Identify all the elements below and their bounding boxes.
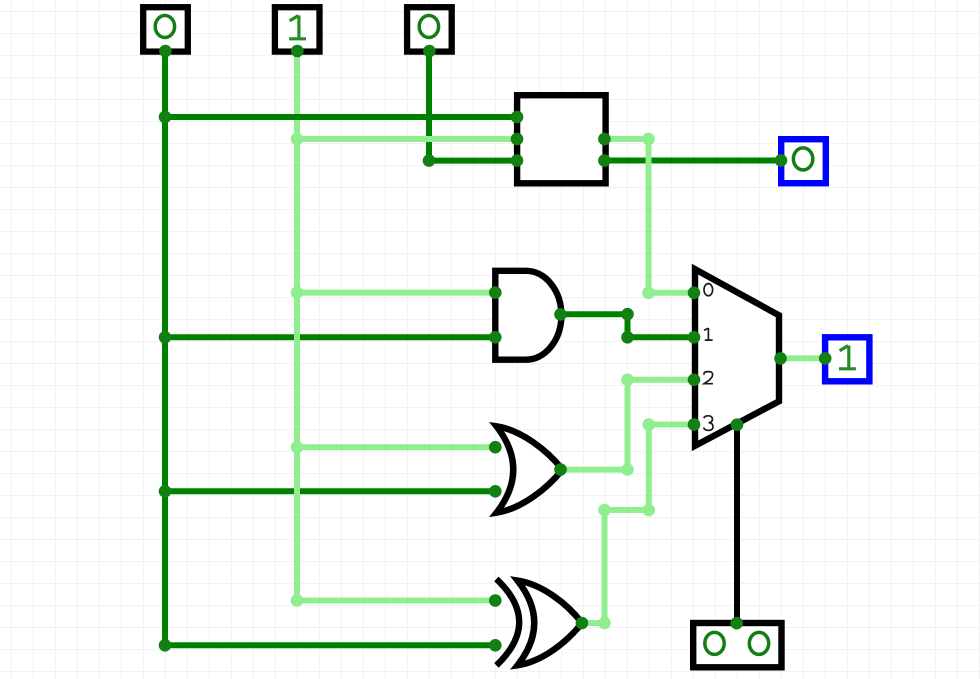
junction AND-out corner top [621, 308, 634, 321]
pin XOR out [576, 617, 589, 630]
wire U1 out2 to LED Y1 [604, 158, 781, 164]
junction XOR-net corner 3 [643, 504, 656, 517]
junction XOR-net corner 2 [598, 504, 611, 517]
pin XOR in b [489, 639, 502, 652]
pin SW2 out [291, 45, 304, 58]
wire net B to OR input a [297, 444, 495, 450]
junction net A / OR b [159, 485, 172, 498]
wire net A to XOR input b [165, 642, 495, 648]
value label 0 of SW3 [419, 16, 438, 38]
pin U1 in a [511, 111, 524, 124]
pin mux in 0 [688, 287, 701, 300]
value label 1 of SW2 [289, 15, 306, 38]
value label 0 of SW1 [155, 16, 174, 38]
input switch SW2 [275, 7, 320, 51]
junction net B / AND a [291, 286, 304, 299]
pin U1 out2 [598, 154, 611, 167]
value label 0 (high bit) of SW4 [705, 632, 724, 654]
junction net A / AND b [159, 331, 172, 344]
pin mux in 1 [688, 331, 701, 344]
value label 0 of Y1 [793, 148, 812, 170]
wire SW3 to U1 pin c [429, 51, 517, 161]
OR gate U3 [497, 426, 563, 512]
junction XOR-net corner 4 [643, 418, 656, 431]
junction net A / U1 pin a [159, 111, 172, 124]
junction U1-out1 corner bottom [642, 287, 655, 300]
pin AND in b [489, 331, 502, 344]
value label 1 of Y2 [839, 345, 856, 368]
value label 0 (low bit) of SW4 [749, 632, 768, 654]
pin mux out [774, 352, 787, 365]
output LED Y1 [781, 139, 826, 183]
junction AND-out corner bottom [621, 331, 634, 344]
junction net B / U1 pin b [291, 133, 304, 146]
junction SW3 wire corner [423, 154, 436, 167]
pin LED Y1 in [775, 154, 788, 167]
XOR gate U5 input arc [496, 579, 519, 666]
junction OR-out corner bottom [621, 463, 634, 476]
pin XOR in a [489, 594, 502, 607]
wire XOR output to mux pin 3 [582, 425, 694, 624]
wire OR output to mux pin 2 [561, 380, 695, 470]
wire mux output to LED Y2 [781, 355, 826, 361]
AND gate U2 [495, 271, 561, 360]
pin LED Y2 in [819, 352, 832, 365]
pin OR in b [489, 485, 502, 498]
wire AND output to mux pin 1 [561, 314, 695, 337]
input switch SW1 [143, 7, 188, 51]
pin AND in a [489, 286, 502, 299]
junction net A / XOR b [159, 639, 172, 652]
mux pin label 1 [704, 328, 713, 340]
output LED Y2 [825, 337, 869, 381]
pin U1 in b [511, 133, 524, 146]
pin U1 in c [511, 154, 524, 167]
mux pin label 0 [704, 284, 713, 296]
input switch SW3 [407, 7, 452, 51]
pin mux in 3 [688, 418, 701, 431]
wire mux select bus (2-bit) [734, 425, 740, 624]
pin SW1 out [159, 45, 172, 58]
wire SW1 bus vertical (net A, low) [162, 51, 168, 645]
wire net A to AND input b [165, 334, 495, 340]
wire net A to OR input b [165, 488, 495, 494]
junction U1-out1 corner top [642, 133, 655, 146]
wire net B to XOR input a [297, 598, 495, 604]
wire net A to U1 pin a [165, 114, 517, 120]
wire net B to U1 pin b [297, 136, 517, 142]
subcircuit box U1 [517, 95, 606, 183]
junction XOR-out corner [598, 617, 611, 630]
wire U1 out1 to mux pin 0 [604, 139, 694, 293]
mux pin label 3 [704, 416, 714, 431]
XOR gate U5 body [518, 581, 583, 666]
pin AND out [554, 308, 567, 321]
wire SW2 bus vertical (net B, high) [294, 51, 300, 601]
pin U1 out1 [598, 133, 611, 146]
2-bit input box SW4 [693, 623, 781, 667]
junction net B / XOR a [291, 594, 304, 607]
junction net B / OR a [291, 441, 304, 454]
mux pin label 2 [704, 372, 713, 384]
multiplexer U4 [695, 269, 779, 446]
pin OR in a [489, 441, 502, 454]
pin SW3 out [423, 45, 436, 58]
pin mux in 2 [688, 374, 701, 387]
pin mux select [731, 418, 744, 431]
junction OR-out corner top [621, 374, 634, 387]
pin OR out [554, 463, 567, 476]
wire net B to AND input a [297, 290, 495, 296]
pin SW4 out [730, 617, 743, 630]
